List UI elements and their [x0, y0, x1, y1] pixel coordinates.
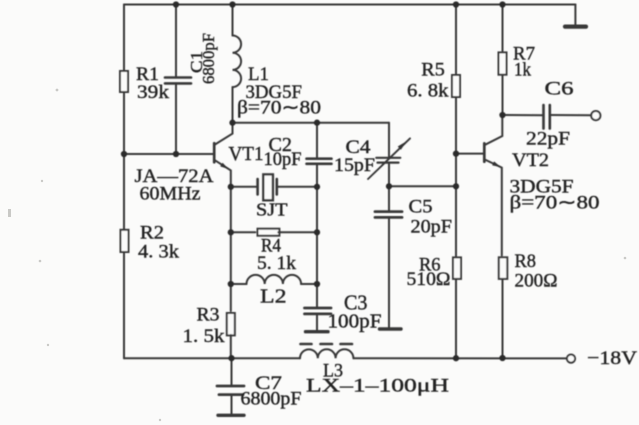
wire right column R4 to L2 [316, 187, 318, 284]
capacitor C4 (variable) [376, 157, 400, 159]
node top rail L1 [229, 1, 235, 7]
svg-text:L2: L2 [260, 286, 287, 308]
resistor R7 [499, 52, 507, 74]
svg-text:22pF: 22pF [526, 129, 570, 150]
inductor L3 [300, 349, 353, 358]
wire bottom rail right section [353, 357, 566, 359]
node C4 bottom [386, 183, 392, 189]
node R4 row left [228, 229, 234, 235]
terminal output [591, 111, 600, 120]
svg-text:200Ω: 200Ω [515, 271, 558, 292]
ground (top right) [565, 25, 586, 29]
transistor VT2 [483, 143, 486, 161]
svg-text:−18V: −18V [587, 348, 637, 369]
inductor L2 [247, 275, 302, 284]
svg-text:4. 3k: 4. 3k [138, 242, 180, 263]
VT2 emitter arrow [492, 161, 501, 167]
transistor VT1 [213, 143, 216, 162]
crystal SJT [231, 186, 258, 188]
wire C5 branch [388, 186, 390, 211]
capacitor C2 [307, 157, 332, 160]
node VT2 collector [499, 112, 505, 118]
L3 core dashes [301, 343, 353, 346]
inductor L1 [232, 36, 241, 88]
wire C2 branch [316, 123, 318, 159]
node bottom rail R3 [228, 355, 234, 361]
svg-text:VT1: VT1 [229, 143, 264, 165]
ground (C7 bottom) [218, 414, 244, 417]
wire left column L2 to R3 [230, 284, 232, 311]
wire VT1 base [124, 153, 214, 155]
resistor R8 [499, 257, 508, 279]
wire top supply rail [124, 4, 575, 6]
svg-text:VT2: VT2 [512, 150, 549, 171]
node L2 row right [314, 281, 320, 287]
wire L2 left stub [231, 283, 247, 285]
svg-text:1. 5k: 1. 5k [183, 326, 226, 347]
node L2 row left [228, 281, 234, 287]
capacitor C6 [542, 105, 545, 128]
node base row C1 [173, 151, 179, 157]
wire C3 branch [316, 284, 318, 308]
ground (C5 bottom) [380, 327, 402, 330]
svg-text:15pF: 15pF [334, 155, 375, 176]
resistor R5 [452, 75, 460, 97]
wire R7 column [502, 5, 504, 52]
wire L2 right stub [301, 283, 317, 285]
node bottom rail R6 [453, 355, 459, 361]
svg-text:R8: R8 [515, 251, 537, 272]
wire R3 to bottom rail [230, 335, 232, 358]
wire emitter column crystal to R4 [230, 187, 232, 233]
wire right drop to ground [574, 5, 576, 26]
node collector row left [229, 120, 235, 126]
wire bottom rail left section [124, 357, 300, 359]
capacitor C5 [375, 210, 402, 213]
node crystal row right [314, 184, 320, 190]
ground (C3 bottom) [306, 330, 329, 333]
svg-text:6. 8k: 6. 8k [407, 80, 449, 101]
node base row left [121, 151, 127, 157]
svg-text:6800pF: 6800pF [241, 389, 302, 410]
node VT2 base [453, 150, 459, 156]
resistor R2 [121, 230, 129, 252]
svg-text:β=70∼80: β=70∼80 [510, 193, 600, 214]
svg-text:R5: R5 [421, 60, 445, 81]
wire R4 row right [278, 231, 317, 233]
wire R5 column [455, 5, 457, 76]
svg-text:60MHz: 60MHz [140, 184, 201, 205]
svg-text:β=70∼80: β=70∼80 [237, 98, 321, 119]
node collector row right [314, 120, 320, 126]
svg-text:20pF: 20pF [411, 217, 453, 238]
resistor R1 [120, 71, 128, 92]
node crystal row left [228, 184, 234, 190]
VT1 emitter arrow [220, 163, 228, 169]
svg-text:10pF: 10pF [264, 149, 302, 170]
wire C7 stub [231, 358, 233, 386]
node top rail R7 [499, 1, 505, 7]
wire VT2 base [456, 153, 483, 155]
node R5 column C4 row [453, 183, 459, 189]
wire C6 row [502, 114, 543, 116]
svg-text:6800pF: 6800pF [199, 33, 218, 84]
wire L1 branch top [232, 5, 234, 36]
svg-text:39k: 39k [137, 82, 170, 103]
svg-text:5. 1k: 5. 1k [257, 253, 297, 274]
svg-text:R2: R2 [140, 223, 164, 244]
capacitor C1 [165, 76, 191, 79]
svg-text:LX–1–100μH: LX–1–100μH [306, 376, 449, 397]
wire left vertical line [123, 5, 125, 359]
node R4 row right [314, 229, 320, 235]
svg-text:100pF: 100pF [328, 311, 382, 332]
wire R4 row left [231, 231, 256, 233]
wire left column R4 to L2 [230, 232, 232, 284]
svg-text:C6: C6 [545, 79, 574, 100]
svg-text:510Ω: 510Ω [407, 269, 451, 290]
node top rail C1 [173, 1, 179, 7]
wire C1 branch [175, 5, 177, 78]
wire top row to C4 [388, 123, 390, 158]
wire C4 to node [388, 162, 390, 186]
svg-text:R3: R3 [197, 305, 220, 326]
node bottom rail R8 [499, 355, 505, 361]
terminal -18V [567, 355, 575, 363]
resistor R4 [258, 229, 280, 236]
svg-text:C5: C5 [409, 197, 433, 218]
capacitor C3 [305, 307, 332, 310]
svg-text:SJT: SJT [256, 199, 288, 219]
wire L1 bottom [232, 87, 234, 123]
resistor R6 [453, 257, 461, 279]
svg-text:1k: 1k [514, 60, 531, 81]
resistor R3 [227, 313, 235, 335]
wire node row C4-R5 [389, 185, 456, 187]
wire collector node row [233, 122, 390, 124]
capacitor C7 [217, 385, 244, 388]
node top rail R5 [453, 1, 459, 7]
